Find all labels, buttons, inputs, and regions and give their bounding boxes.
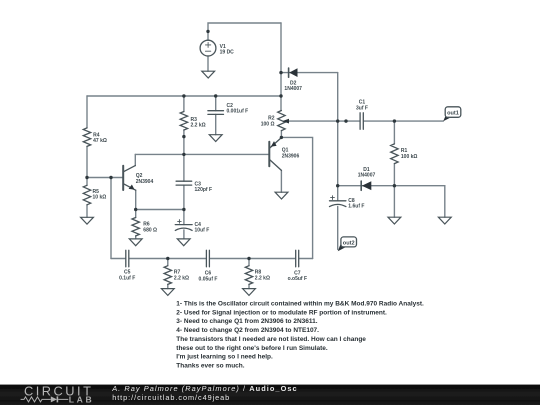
svg-text:out1: out1 (447, 111, 459, 117)
wire R1 leads (393, 121, 395, 186)
label R7 (174, 269, 190, 281)
label R4 (93, 132, 107, 144)
junction dot 10 (134, 208, 137, 211)
wire R2 bottom lead (280, 131, 282, 138)
flag out2 (338, 237, 357, 251)
svg-text:http://circuitlab.com/c49jeab: http://circuitlab.com/c49jeab (112, 393, 230, 402)
svg-text:0.1uf F: 0.1uf F (119, 275, 136, 281)
svg-text:2.2 kΩ: 2.2 kΩ (174, 275, 190, 281)
wire emitter rail (136, 209, 184, 211)
transistor Q2 (123, 166, 136, 191)
junction dot 18 (166, 257, 169, 260)
svg-text:Thanks ever so much.: Thanks ever so much. (176, 363, 244, 370)
wire R4 leads (86, 96, 88, 178)
label C5 (119, 269, 136, 281)
resistor R3 (180, 112, 187, 131)
svg-text:I'm just learning so I need he: I'm just learning so I need help. (176, 354, 273, 361)
junction dot 14 (344, 119, 347, 122)
label R8 (255, 269, 271, 281)
svg-text:10uf F: 10uf F (195, 227, 210, 233)
junction dot 3 (279, 94, 282, 97)
label R3 (191, 117, 207, 129)
schematic note text (176, 301, 424, 370)
resistor R8 (245, 266, 252, 285)
junction dot 11 (182, 208, 185, 211)
label C1 (356, 99, 369, 111)
label V1 (220, 44, 234, 56)
svg-text:0.001uf F: 0.001uf F (227, 108, 249, 114)
ground below C2 (209, 135, 222, 142)
wire Q2 base (87, 177, 123, 179)
svg-text:47 kΩ: 47 kΩ (93, 138, 107, 144)
label C3 (195, 181, 213, 193)
svg-text:3- Need to change Q1 from 2N39: 3- Need to change Q1 from 2N3906 to 2N36… (176, 318, 317, 325)
label C7 (288, 270, 308, 282)
ground below R7 (161, 289, 174, 296)
svg-text:3uf F: 3uf F (356, 105, 369, 111)
junction dot 16 (336, 184, 339, 187)
ground below Q1 (275, 192, 288, 199)
capacitor C8 polarized (330, 196, 346, 207)
label D2 (284, 80, 302, 92)
wire bottom rail (111, 258, 313, 260)
wire Q2 collector riser (134, 154, 136, 165)
wire R6 leads (135, 210, 137, 239)
resistor R5 (83, 185, 90, 205)
junction dot 5 (214, 94, 217, 97)
voltage source V1 (200, 40, 216, 56)
wire Q2 emitter drop (135, 190, 137, 209)
junction dot 2 (279, 71, 282, 74)
svg-text:0.05uf F: 0.05uf F (199, 276, 219, 282)
svg-text:680 Ω: 680 Ω (143, 227, 157, 233)
junction dot 7 (182, 153, 185, 156)
junction dot 17 (393, 184, 396, 187)
capacitor C1 (360, 113, 363, 130)
svg-text:1.6uf F: 1.6uf F (348, 203, 365, 209)
svg-text:o.o5uf F: o.o5uf F (288, 276, 308, 282)
resistor R4 (83, 128, 90, 146)
label Q2 (136, 173, 154, 185)
svg-text:A. Ray Palmore (RayPalmore) /: A. Ray Palmore (RayPalmore) / Audio_Osc (111, 384, 298, 393)
ground below R5 (81, 217, 94, 224)
wire C2 leads (215, 96, 217, 135)
wire V1 top to node (208, 23, 281, 40)
junction dot 9 (109, 176, 112, 179)
svg-text:1- This is the Oscillator circ: 1- This is the Oscillator circuit contai… (176, 301, 424, 308)
label C8 (348, 197, 365, 209)
junction dot 6 (182, 135, 185, 138)
diode D2 (289, 68, 298, 77)
wire R2 wiper to out1 (286, 120, 443, 122)
junction dot 15 (393, 119, 396, 122)
wire Q1 collector drop (280, 170, 282, 192)
wire vertical x337.7 D2 to C8 (337, 73, 339, 201)
resistor R7 (164, 266, 171, 285)
capacitor C7 (296, 250, 299, 266)
label R6 (143, 221, 157, 233)
transistor Q1 (269, 138, 281, 171)
junction dot 8 (85, 176, 88, 179)
capacitor C2 (208, 111, 224, 115)
capacitor C6 (206, 250, 209, 266)
ground below R6 (129, 239, 142, 246)
flag out1 (443, 107, 461, 122)
wire R7 leads (167, 259, 169, 289)
capacitor C4 polarized (175, 220, 192, 231)
label R2 (261, 115, 275, 127)
junction dot 4 (182, 94, 185, 97)
ground below R1 (388, 217, 401, 224)
label D1 (358, 167, 376, 179)
junction dot 1 (206, 30, 209, 33)
label C2 (227, 102, 249, 114)
label C6 (199, 270, 219, 282)
junction dot 13 (336, 119, 339, 122)
wire Q2 collector to Q1 base (135, 153, 268, 155)
svg-text:120pf F: 120pf F (195, 187, 213, 193)
junction dot 12 (280, 136, 283, 139)
svg-text:100 kΩ: 100 kΩ (401, 154, 418, 160)
svg-text:1N4007: 1N4007 (358, 172, 376, 178)
wire supply vertical x281 (280, 23, 282, 111)
svg-text:2N3904: 2N3904 (136, 179, 154, 185)
capacitor C3 (176, 181, 192, 185)
logo resistor zigzag (21, 397, 47, 402)
wire R8 leads (248, 259, 250, 289)
wire R5 leads (86, 178, 88, 218)
svg-text:these out to the right one's b: these out to the right one's before I ru… (176, 345, 328, 352)
svg-text:2N3906: 2N3906 (282, 153, 300, 159)
junction dot 19 (247, 257, 250, 260)
wire R3 leads (183, 96, 185, 181)
resistor R6 (132, 218, 139, 236)
wire R1 bottom to ground (393, 186, 395, 218)
label Q1 (282, 147, 300, 159)
ground right end (438, 217, 451, 224)
ground below C4 (177, 239, 190, 246)
svg-text:1N4007: 1N4007 (284, 86, 302, 92)
ground below V1 (202, 71, 215, 78)
label C4 (195, 222, 210, 234)
wire C3 to C4 (183, 185, 185, 225)
svg-text:4- Need to change Q2 from 2N39: 4- Need to change Q2 from 2N3904 to NTE1… (176, 327, 319, 334)
wire D2 branch (281, 72, 338, 74)
svg-text:2.2 kΩ: 2.2 kΩ (191, 122, 207, 128)
diode D1 (361, 181, 371, 190)
wire C8 to out2 (337, 207, 339, 250)
svg-text:10 kΩ: 10 kΩ (93, 194, 107, 200)
wire D1 branch (338, 186, 445, 218)
svg-text:The transistors that I needed: The transistors that I needed are not li… (176, 336, 366, 343)
rheostat R2 (278, 111, 289, 131)
svg-text:LAB: LAB (69, 394, 94, 404)
wire top rail (87, 95, 281, 97)
capacitor C5 (126, 250, 129, 266)
wire C4 to ground (183, 230, 185, 239)
label R5 (93, 189, 107, 201)
svg-text:100 Ω: 100 Ω (261, 121, 275, 127)
logo diode (47, 396, 68, 402)
wire feedback vertical x111 (110, 178, 112, 259)
svg-text:out2: out2 (343, 240, 355, 246)
ground below R8 (243, 289, 256, 296)
resistor R1 (391, 144, 398, 164)
svg-text:2- Used for Signal injection o: 2- Used for Signal injection or to modul… (176, 309, 387, 316)
wire V1 bottom lead (207, 56, 209, 71)
wire right feedback riser x312.6 (281, 137, 312, 258)
svg-text:19 DC: 19 DC (220, 49, 234, 55)
svg-text:2.2 kΩ: 2.2 kΩ (255, 275, 271, 281)
label R1 (401, 148, 418, 160)
